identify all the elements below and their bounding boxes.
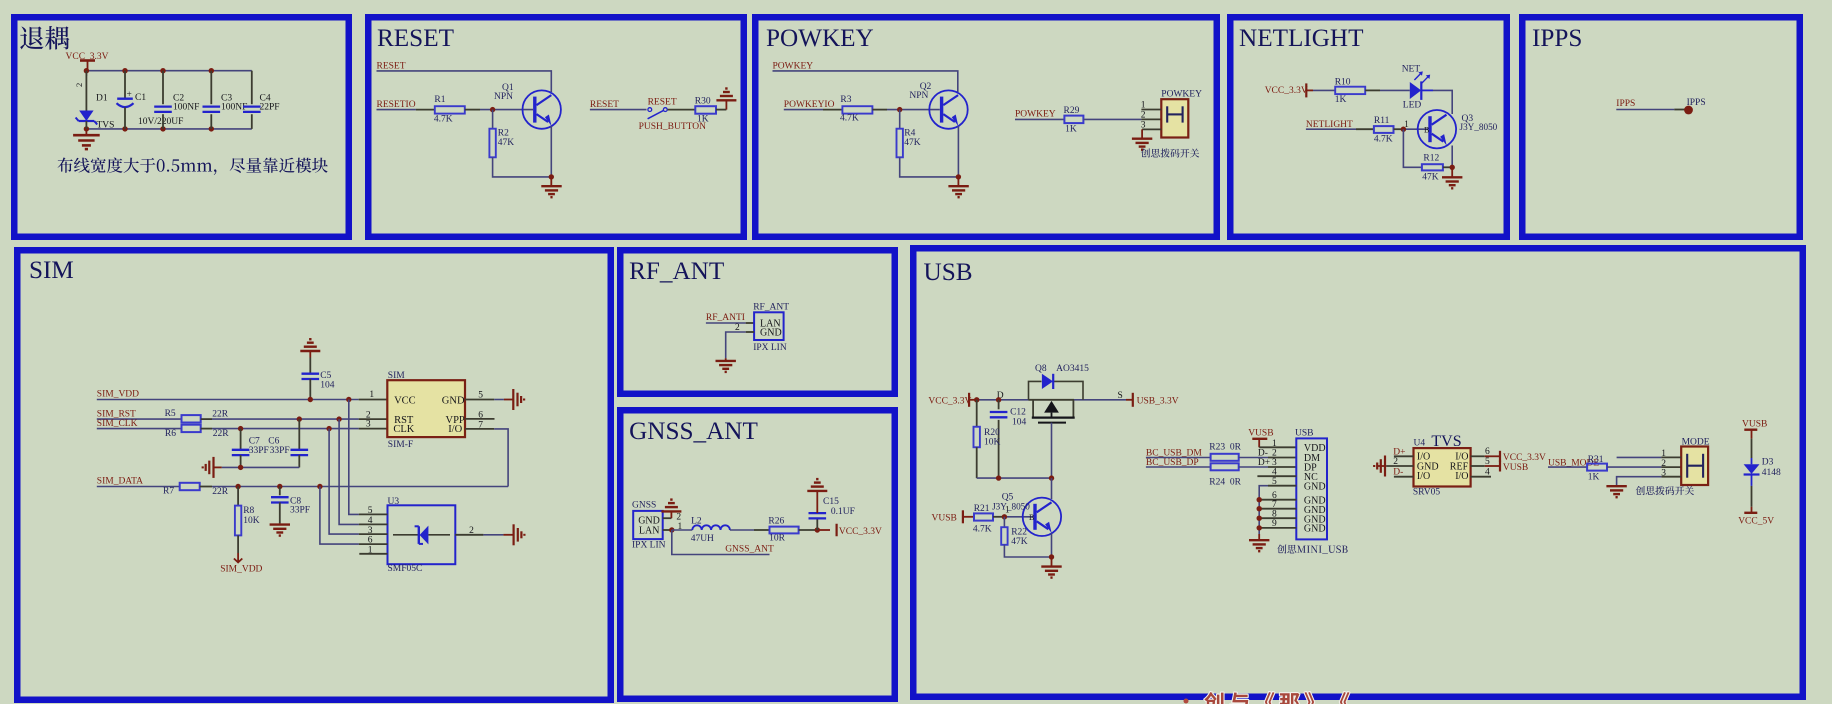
node U3 branch on SIM_DATA	[317, 484, 322, 489]
label R5	[165, 409, 176, 419]
U3 internal zener diode	[393, 526, 450, 545]
label R8	[243, 506, 254, 516]
pin number 5 SIM	[478, 391, 483, 401]
wire base junction down	[1403, 129, 1422, 167]
MODE switch glyph	[1687, 454, 1703, 478]
svg-text:R3: R3	[840, 95, 851, 105]
transistor Q1	[523, 90, 561, 128]
ground Q3 emitter	[1442, 167, 1462, 188]
label USB_3.3V	[1137, 396, 1179, 406]
node pin9 gnd	[1257, 525, 1262, 530]
switch glyph	[1167, 106, 1182, 122]
svg-text:R23 0R: R23 0R	[1209, 443, 1241, 453]
wire SIM_DATA to R7	[97, 486, 180, 488]
svg-text:5: 5	[368, 506, 373, 516]
svg-text:7: 7	[1272, 500, 1277, 510]
label Q1	[502, 83, 514, 93]
value 47K R12	[1422, 173, 1439, 183]
wire R10 to LED	[1365, 89, 1410, 91]
svg-text:U4: U4	[1414, 438, 1426, 448]
label Q5	[1002, 493, 1014, 503]
diode D3	[1744, 464, 1760, 474]
label J3Y_8050 Q5	[992, 501, 1030, 511]
svg-text:47UH: 47UH	[691, 534, 714, 544]
value 47UH	[691, 534, 714, 544]
pin name GND	[442, 396, 465, 407]
net label POWKEY switch side	[1015, 110, 1056, 120]
svg-text:R7: R7	[163, 486, 174, 496]
pin name I/O 6 u4	[1455, 452, 1468, 463]
svg-text:GNSS: GNSS	[632, 500, 656, 510]
power port VUSB usb1	[1248, 429, 1273, 448]
pin name LAN gnss	[639, 526, 660, 537]
node C12 top	[996, 397, 1001, 402]
label R11	[1374, 116, 1390, 126]
svg-text:GND: GND	[760, 328, 782, 339]
label R24 0R	[1209, 478, 1241, 488]
value 33PF C8	[290, 506, 310, 516]
pin name LAN rf	[760, 319, 781, 330]
power port VCC_3.3V netlight	[1265, 83, 1313, 97]
svg-text:R12: R12	[1423, 154, 1439, 164]
inductor L2	[692, 525, 730, 530]
svg-text:4.7K: 4.7K	[434, 114, 453, 124]
node Q5 base	[1002, 514, 1007, 519]
wire RESETIO to R1	[377, 109, 435, 111]
transistor Q5	[1023, 498, 1061, 536]
svg-text:R24 0R: R24 0R	[1209, 478, 1241, 488]
label MINI_USB note	[1277, 545, 1347, 554]
pin number 3 mode	[1661, 468, 1666, 478]
pin 6 GND wire	[1259, 499, 1296, 501]
svg-text:IPPS: IPPS	[1687, 98, 1706, 108]
value 1K R31	[1588, 473, 1600, 483]
wire Q3 emitter down	[1451, 146, 1453, 168]
node R20 top	[974, 397, 979, 402]
node emitter Q3	[1450, 165, 1455, 170]
pin name I/O 3 u4	[1417, 471, 1430, 482]
sheet box RF_ANT	[620, 250, 895, 394]
wire bottom rail	[86, 128, 251, 130]
value 22PF	[260, 103, 280, 113]
wire Q2 emitter down	[957, 126, 959, 177]
wire POWKEY to R29	[1015, 118, 1064, 120]
label C15	[823, 497, 839, 507]
wire Q5 base junction to R22	[1003, 517, 1005, 527]
pin 7 IO wire	[465, 429, 508, 487]
pin number 2 gnss	[676, 513, 681, 523]
svg-text:3: 3	[1661, 468, 1666, 478]
svg-text:C15: C15	[823, 497, 839, 507]
value 4.7K R1	[434, 114, 453, 124]
svg-text:10K: 10K	[243, 516, 260, 526]
pin name GND7 usb	[1304, 505, 1326, 516]
svg-text:L2: L2	[691, 517, 702, 527]
resistor R22	[1001, 527, 1007, 545]
svg-text:1K: 1K	[1065, 124, 1077, 134]
label R23 0R	[1209, 443, 1241, 453]
wire R5 to SIM pin2	[201, 418, 388, 420]
svg-text:3: 3	[368, 526, 373, 536]
svg-text:0.1UF: 0.1UF	[831, 507, 855, 517]
pin 4 NC stub	[1257, 475, 1296, 477]
chip USB connector	[1296, 438, 1327, 539]
svg-text:R21: R21	[974, 504, 990, 514]
pin number 1 Q3 base	[1404, 119, 1409, 129]
pin number 2 mode	[1661, 459, 1666, 469]
pin number 6 SIM	[478, 411, 483, 421]
svg-text:10K: 10K	[984, 438, 1001, 448]
label R30	[695, 96, 711, 106]
svg-text:47K: 47K	[1422, 173, 1439, 183]
svg-text:SIM_RST: SIM_RST	[97, 409, 136, 419]
svg-text:VUSB: VUSB	[932, 513, 957, 523]
svg-text:1K: 1K	[697, 114, 709, 124]
pin 2 GND wire to ground	[726, 332, 754, 358]
svg-text:RF_ANT: RF_ANT	[753, 303, 789, 313]
net label RESETIO	[377, 100, 416, 110]
label C6	[268, 437, 279, 447]
label POWKEY above switch	[1161, 90, 1202, 100]
capacitor C4	[243, 71, 261, 129]
pin number 6 U3	[368, 536, 373, 546]
svg-text:R10: R10	[1335, 77, 1351, 87]
pin number 1 gnss	[678, 522, 683, 532]
pin number 3 U3	[368, 526, 373, 536]
svg-text:6: 6	[368, 536, 373, 546]
net label BC_USB_DP	[1146, 458, 1199, 468]
resistor R20	[974, 400, 980, 478]
pin number 3 usb	[1272, 458, 1277, 468]
label L2	[691, 517, 702, 527]
svg-text:USB: USB	[1295, 429, 1313, 439]
pin 6 VPP stub	[465, 418, 495, 420]
LED D NET	[1410, 71, 1433, 100]
value 22R R5	[212, 410, 229, 420]
pin number 2 rf	[735, 323, 740, 333]
svg-text:VCC_3.3V: VCC_3.3V	[1265, 86, 1308, 96]
resistor R23	[1211, 454, 1239, 461]
note 创思拨码开关 mode	[1636, 486, 1694, 495]
switch S1 PUSH_BUTTON	[648, 108, 668, 119]
node base Q3	[1401, 127, 1406, 132]
resistor R3	[842, 106, 872, 113]
svg-text:USB_3.3V: USB_3.3V	[1137, 396, 1179, 406]
wire BC_USB_DM to R23	[1146, 457, 1211, 459]
label D3	[1762, 458, 1774, 468]
net label GNSS_ANT	[725, 545, 774, 555]
svg-text:SIM_CLK: SIM_CLK	[97, 419, 138, 429]
label D mosfet	[997, 391, 1004, 401]
chip SIM connector	[387, 380, 465, 437]
net label BC_USB_DM	[1146, 448, 1203, 458]
transistor Q8 body diode loop	[1029, 381, 1084, 399]
node base Q2	[897, 107, 902, 112]
svg-text:R5: R5	[165, 409, 176, 419]
resistor R5	[182, 415, 201, 422]
wire R21 to Q5 base	[993, 516, 1033, 518]
label C7	[249, 437, 260, 447]
sheet box 退耦	[14, 17, 349, 237]
svg-text:4: 4	[1272, 468, 1277, 478]
net label VUSB q5	[932, 510, 963, 523]
transistor Q3	[1418, 110, 1456, 148]
svg-text:D1: D1	[96, 94, 108, 104]
sheet box GNSS_ANT	[620, 410, 895, 699]
svg-text:4.7K: 4.7K	[973, 525, 992, 535]
Q8 diode	[1042, 374, 1053, 389]
svg-text:NETLIGHT: NETLIGHT	[1306, 120, 1353, 130]
svg-text:R6: R6	[165, 429, 176, 439]
pin number 1 Q5	[1005, 505, 1010, 515]
svg-text:R29: R29	[1064, 106, 1080, 116]
node pin8 gnd	[1257, 516, 1262, 521]
label NPN Q1	[494, 92, 513, 102]
wire top rail	[86, 71, 251, 76]
pin number 5 U3	[368, 506, 373, 516]
pin number 6 u4	[1485, 447, 1490, 457]
node IPPS test point	[1684, 106, 1693, 115]
chip U3 SMF05C	[388, 505, 456, 564]
capacitor C5	[302, 358, 320, 400]
svg-text:R2: R2	[498, 128, 509, 138]
label U4	[1414, 438, 1426, 448]
node junctions bottom rail	[84, 126, 214, 131]
pin 6 u4 wire	[1471, 455, 1499, 457]
wire DATA branch down to U3 pin6	[320, 487, 359, 545]
svg-text:R11: R11	[1374, 116, 1390, 126]
wire POWKEY net to Q2 collector	[773, 71, 958, 92]
value 104 C5	[320, 380, 335, 390]
svg-text:VCC_5V: VCC_5V	[1738, 517, 1774, 527]
svg-text:B: B	[1029, 513, 1034, 522]
pin number 3 SIM	[366, 420, 371, 430]
title USB	[924, 259, 973, 286]
svg-text:SIM_DATA: SIM_DATA	[97, 477, 143, 487]
svg-text:1: 1	[1272, 439, 1277, 449]
title NETLIGHT	[1239, 25, 1364, 52]
svg-text:GNSS_ANT: GNSS_ANT	[629, 418, 758, 445]
wire R1 to Q1 base	[465, 109, 533, 111]
power flag VUSB u4	[1499, 461, 1501, 472]
node C5 on SIM_VDD	[308, 397, 313, 402]
svg-text:AO3415: AO3415	[1056, 364, 1089, 374]
node C6 on RST	[297, 416, 302, 421]
sheet box SIM	[17, 250, 611, 700]
svg-text:4: 4	[1485, 468, 1490, 478]
ground Q5	[1041, 557, 1061, 578]
pin name NC usb	[1304, 472, 1318, 483]
earth above C15	[807, 479, 827, 491]
switch MODE connector	[1681, 447, 1708, 486]
svg-text:C5: C5	[320, 371, 331, 381]
value 0.1UF	[831, 507, 855, 517]
resistor R26	[770, 527, 799, 534]
title SIM	[29, 257, 74, 284]
label R12	[1423, 154, 1439, 164]
power flag VCC_3.3V u4	[1499, 451, 1501, 462]
wire caps to earth	[214, 466, 300, 468]
label R2	[498, 128, 509, 138]
wire R7 to IO return	[200, 486, 508, 488]
wire CLK branch down to U3 pin3	[329, 429, 359, 534]
node RST branch to U3	[336, 416, 341, 421]
pin number 1 SIM	[369, 390, 374, 400]
node emitter Q1	[549, 174, 554, 179]
pin 7 GND wire	[1259, 508, 1296, 510]
svg-text:GND: GND	[1304, 524, 1326, 535]
wire VUSB to pin1	[1259, 446, 1296, 448]
power port VUSB d3	[1742, 420, 1767, 439]
pin number 5 u4	[1485, 457, 1490, 467]
capacitor C8	[271, 487, 289, 524]
label RF_ANT above connector	[753, 303, 789, 313]
capacitor C1 electrolytic	[117, 71, 134, 129]
label SIM-F below chip	[388, 440, 413, 450]
svg-text:2: 2	[1393, 457, 1398, 467]
title GNSS_ANT	[629, 418, 758, 445]
wire lower rail Q8	[977, 477, 1052, 479]
U3 pin 4	[359, 523, 388, 525]
label D+ usb	[1258, 458, 1270, 468]
svg-text:IPX LIN: IPX LIN	[632, 541, 666, 551]
svg-text:4.7K: 4.7K	[1374, 134, 1393, 144]
wire IPPS	[1616, 109, 1684, 111]
label Q8	[1035, 364, 1047, 374]
node base Q1	[490, 107, 495, 112]
pin number 3	[1141, 121, 1146, 131]
resistor R4	[897, 129, 903, 158]
net label D- u4	[1393, 467, 1403, 477]
label U3	[388, 497, 400, 507]
pin number 2 u4	[1393, 457, 1398, 467]
svg-text:J3Y_8050: J3Y_8050	[1460, 122, 1498, 132]
net label RESET button side	[590, 100, 619, 110]
label VCC_3.3V gnss	[839, 527, 882, 537]
wire R24 to USB pin3	[1239, 466, 1297, 468]
value 4.7K R3	[840, 113, 859, 123]
svg-text:SIM_VDD: SIM_VDD	[97, 390, 139, 400]
svg-text:B: B	[1424, 126, 1429, 135]
resistor R2	[489, 129, 495, 158]
value 22R R7	[212, 487, 229, 497]
svg-text:7: 7	[478, 421, 483, 431]
pin 4 u4 stub	[1471, 476, 1491, 478]
svg-text:R31: R31	[1588, 455, 1604, 465]
svg-text:R30: R30	[695, 96, 711, 106]
pin number 4 u4	[1485, 468, 1490, 478]
net label D+ u4	[1393, 448, 1405, 458]
svg-text:SIM_VDD: SIM_VDD	[220, 565, 262, 575]
svg-text:VUSB: VUSB	[1248, 429, 1273, 439]
resistor R12	[1422, 164, 1443, 170]
wire R31 to MODE pin2	[1607, 466, 1681, 468]
pin name GND6 usb	[1304, 496, 1326, 507]
value 10R	[769, 534, 786, 544]
label SIM above chip	[388, 371, 405, 381]
label IPX LIN below connector	[753, 343, 787, 353]
svg-text:1K: 1K	[1335, 95, 1347, 105]
svg-text:1: 1	[369, 390, 374, 400]
wire POWKEYIO to R3	[784, 109, 843, 111]
pin name GND8 usb	[1304, 514, 1326, 525]
value 10K R8	[243, 516, 260, 526]
svg-text:47K: 47K	[904, 138, 921, 148]
resistor R10	[1335, 87, 1365, 94]
svg-text:USB: USB	[924, 259, 973, 286]
value 10V/220UF	[138, 117, 183, 127]
U3 pin 2 wire to earth	[455, 534, 513, 536]
label C12	[1010, 408, 1026, 418]
earth u4	[1374, 456, 1385, 477]
ground RF	[716, 358, 736, 372]
wire SIM_VDD to SIM pin1	[97, 399, 388, 401]
wire pin1 to L2	[672, 529, 693, 531]
pin 9 GND wire	[1259, 527, 1296, 529]
sheet box USB	[913, 248, 1803, 697]
wire NETLIGHT to R11	[1306, 128, 1374, 130]
svg-text:PUSH_BUTTON: PUSH_BUTTON	[639, 122, 707, 132]
svg-text:6: 6	[478, 411, 483, 421]
capacitor C6	[291, 419, 309, 467]
svg-text:2: 2	[1272, 449, 1277, 459]
wire VCC rail to USB_3.3V	[976, 399, 1126, 401]
svg-text:22R: 22R	[213, 429, 230, 439]
earth left of caps	[203, 457, 214, 478]
net label USB_MODE	[1548, 458, 1599, 468]
pin name I/O	[448, 424, 462, 435]
wire gate rail to Q5 collector	[1051, 478, 1053, 499]
ground Q1 emitter	[541, 177, 561, 197]
chip U4 SRV05	[1414, 448, 1471, 486]
label S mosfet	[1118, 391, 1123, 401]
label R21	[974, 504, 990, 514]
transistor Q2	[929, 90, 967, 128]
svg-text:8: 8	[1272, 510, 1277, 520]
pin number 7 usb	[1272, 500, 1277, 510]
net label RF_ANTI	[706, 313, 745, 323]
svg-text:1K: 1K	[1588, 473, 1600, 483]
svg-text:2: 2	[1661, 459, 1666, 469]
svg-text:3: 3	[366, 420, 371, 430]
node emitter Q2	[956, 174, 961, 179]
capacitor C7	[232, 429, 250, 468]
svg-text:D-: D-	[1258, 448, 1268, 458]
resistor R1	[435, 106, 465, 113]
sheet box NETLIGHT	[1230, 17, 1507, 237]
label MODE above switch	[1682, 438, 1710, 448]
node C7 on CLK	[238, 426, 243, 431]
net label POWKEY	[773, 62, 814, 72]
diode D1 TVS	[76, 71, 98, 129]
pin number 5 usb	[1272, 477, 1277, 487]
label IPX LIN gnss	[632, 541, 666, 551]
svg-text:9: 9	[1272, 519, 1277, 529]
svg-text:NETLIGHT: NETLIGHT	[1239, 25, 1364, 52]
svg-text:2: 2	[676, 513, 681, 523]
wire R23 to USB pin2	[1239, 457, 1297, 459]
svg-text:33PF: 33PF	[270, 446, 290, 456]
svg-text:C12: C12	[1010, 408, 1026, 418]
svg-text:33PF: 33PF	[290, 506, 310, 516]
connector GNSS IPX	[633, 511, 663, 539]
pin 1 gnss	[663, 529, 672, 531]
power port VCC_3.3V	[66, 52, 109, 71]
svg-text:SRV05: SRV05	[1413, 487, 1440, 497]
resistor R8	[235, 487, 241, 536]
svg-text:RESETIO: RESETIO	[377, 100, 416, 110]
node Q5 emitter	[1049, 554, 1054, 559]
